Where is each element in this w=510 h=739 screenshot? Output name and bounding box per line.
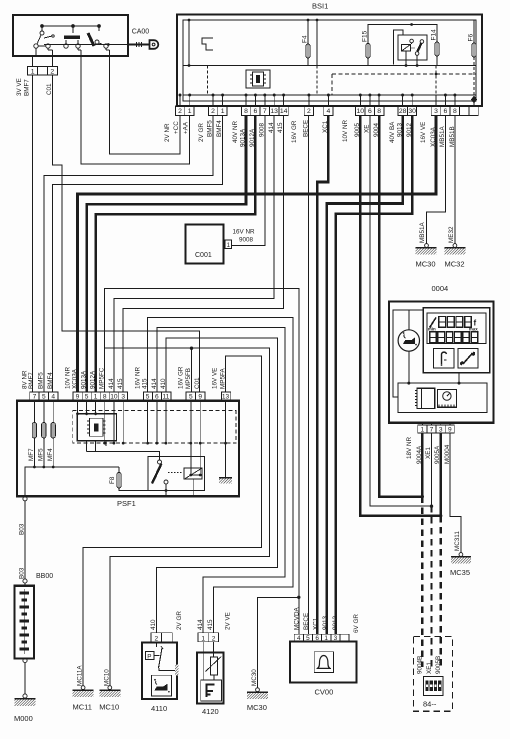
wire 9012A (thick)	[96, 115, 256, 392]
wire +CC	[110, 56, 181, 154]
svg-text:16V GR: 16V GR	[178, 366, 185, 389]
diagnostic connector 84 dashed box	[414, 636, 453, 711]
seven segment digits row1	[439, 317, 477, 328]
svg-text:MC32: MC32	[445, 260, 465, 269]
svg-text:BECE: BECE	[303, 613, 310, 630]
svg-text:4: 4	[51, 394, 55, 401]
oil pressure warning circle icon	[398, 330, 419, 351]
pin feed stubs into dashed box	[78, 400, 226, 443]
internal notch decoration	[202, 38, 213, 50]
ground MC32	[453, 244, 457, 248]
BSI1 pin row boxes	[175, 106, 478, 115]
fuse F8	[118, 467, 120, 473]
wire 415 BSI1-PSF1	[123, 115, 283, 392]
svg-text:9005B: 9005B	[435, 656, 442, 674]
plus diamond junction	[471, 96, 477, 104]
svg-text:B03: B03	[19, 567, 26, 579]
svg-text:9013A: 9013A	[81, 370, 88, 389]
relay feed elbow	[394, 30, 404, 65]
svg-text:BB00: BB00	[36, 573, 53, 580]
wire 9012 (thick)	[336, 115, 412, 634]
dashed wire labels	[417, 656, 443, 674]
svg-text:2V NR: 2V NR	[164, 123, 171, 142]
svg-text:5: 5	[189, 394, 193, 401]
needle gauge icon	[430, 318, 436, 327]
svg-text:2: 2	[50, 68, 54, 75]
svg-text:1: 1	[420, 427, 424, 434]
labels 3V VE / BMF7 / C01	[16, 78, 53, 96]
svg-text:5: 5	[146, 394, 150, 401]
svg-text:1: 1	[221, 108, 225, 115]
wire C01	[52, 75, 199, 392]
svg-text:13: 13	[222, 394, 230, 401]
svg-text:18V NR: 18V NR	[406, 436, 413, 459]
svg-text:84--: 84--	[423, 700, 437, 709]
PSF1 pin labels rotated	[22, 366, 227, 389]
fuse F14	[435, 42, 439, 56]
svg-text:4: 4	[327, 108, 331, 115]
svg-text:5: 5	[85, 394, 89, 401]
svg-text:+CC: +CC	[173, 121, 180, 134]
wire MC30 branch	[258, 597, 299, 688]
PSF1 internal dashed compartment	[73, 411, 236, 444]
BSI1 internal bus	[183, 94, 476, 96]
dashed 9005B	[440, 516, 442, 667]
display unit outer box	[423, 308, 489, 373]
svg-text:XC1: XC1	[313, 617, 320, 630]
svg-text:MC30: MC30	[251, 669, 258, 686]
wire MP5FA to MC11	[83, 356, 262, 685]
svg-text:2: 2	[154, 635, 158, 642]
wire 415 PSF1 to 4120	[148, 317, 293, 632]
wire XC1 (thick)	[317, 115, 328, 634]
C001 pin 1	[225, 240, 232, 249]
svg-text:6: 6	[254, 108, 258, 115]
BSI1 control unit box	[177, 15, 482, 107]
fuse F4	[307, 20, 309, 45]
internal dashed column B	[316, 20, 318, 66]
svg-text:2: 2	[178, 108, 182, 115]
cluster wire labels	[406, 436, 451, 464]
svg-text:F4: F4	[302, 35, 309, 43]
svg-text:6: 6	[155, 394, 159, 401]
relay K inside BSI1	[398, 35, 427, 67]
wire BMF5	[44, 115, 213, 392]
wire 414 PSF1 to 4120	[157, 328, 285, 633]
svg-text:MCVDA: MCVDA	[294, 606, 301, 630]
svg-text:ME32: ME32	[448, 226, 455, 243]
PSF1 connector component	[77, 414, 116, 441]
svg-text:5: 5	[42, 394, 46, 401]
svg-text:f: f	[474, 319, 477, 328]
svg-text:1: 1	[31, 68, 35, 75]
wire ME32	[454, 115, 456, 243]
svg-text:B03: B03	[19, 523, 26, 535]
key icon	[128, 40, 158, 49]
svg-text:14: 14	[280, 108, 288, 115]
fuse MF7	[33, 400, 35, 423]
svg-text:MC311: MC311	[454, 531, 461, 551]
svg-text:MC11: MC11	[73, 703, 92, 712]
svg-text:11: 11	[162, 394, 169, 401]
fuse F15	[366, 44, 370, 59]
svg-text:MC30: MC30	[247, 703, 267, 712]
svg-text:410: 410	[150, 619, 157, 630]
connector C001 box	[185, 224, 223, 263]
instrument cluster 0004 box	[389, 302, 494, 423]
BSI1 internal divider	[183, 65, 476, 67]
svg-text:F14: F14	[431, 29, 438, 41]
cluster lower electronics box	[398, 383, 487, 412]
icon box wrench	[458, 349, 478, 368]
svg-text:7: 7	[263, 108, 267, 115]
wire BMF7	[32, 75, 34, 392]
svg-text:MC30: MC30	[416, 260, 436, 269]
svg-text:415: 415	[117, 378, 124, 389]
PSF1 fuse box	[17, 401, 239, 497]
LCD box	[427, 313, 486, 344]
svg-text:4120: 4120	[202, 707, 219, 716]
wire BECE	[308, 115, 310, 634]
icon box key	[434, 349, 454, 368]
svg-text:BMF7: BMF7	[24, 79, 31, 96]
svg-text:3: 3	[434, 108, 438, 115]
BSI1 pin numbers	[178, 108, 457, 115]
svg-text:28: 28	[399, 108, 407, 115]
svg-text:C01: C01	[194, 377, 201, 389]
wire 414 BSI1-PSF1	[114, 115, 274, 392]
wire 9005 (thick)	[360, 115, 440, 515]
svg-text:MF5: MF5	[37, 448, 44, 461]
wire XE	[370, 115, 432, 506]
svg-text:40V NR: 40V NR	[232, 120, 239, 143]
wire M0004 to MC35	[450, 433, 461, 552]
svg-text:16V VE: 16V VE	[420, 122, 427, 143]
svg-text:10: 10	[110, 394, 118, 401]
svg-text:F15: F15	[362, 30, 369, 42]
ground M000	[23, 694, 27, 698]
svg-text:+AA: +AA	[183, 121, 190, 134]
svg-text:BMF5: BMF5	[207, 120, 214, 137]
svg-text:MC11A: MC11A	[77, 665, 84, 686]
svg-text:16V NR: 16V NR	[233, 229, 256, 236]
svg-text:9013: 9013	[322, 615, 329, 630]
BSI1 pin stubs and junction dots	[180, 95, 455, 106]
svg-text:BMF4: BMF4	[216, 120, 223, 137]
svg-text:9005A: 9005A	[434, 445, 441, 464]
switch internal bus	[41, 25, 101, 33]
fuse F6	[473, 20, 475, 43]
key link line	[44, 44, 128, 46]
svg-text:13: 13	[270, 108, 278, 115]
wire 9008	[232, 115, 265, 245]
wire MB51A	[427, 115, 446, 243]
ignition contact set 1	[34, 31, 54, 56]
svg-text:7: 7	[33, 394, 37, 401]
internal bus to battery	[25, 467, 119, 497]
svg-text:1: 1	[188, 108, 192, 115]
svg-text:2V VE: 2V VE	[225, 612, 232, 630]
svg-text:XE1: XE1	[426, 662, 433, 674]
dashed XE1	[430, 506, 432, 667]
svg-text:MP5FB: MP5FB	[185, 368, 192, 389]
seven segment digits row2	[430, 332, 478, 343]
cluster internal wires	[408, 310, 410, 330]
ignition switch CA00 box	[13, 15, 128, 56]
wire MP5FC to MCVDA and MC30	[105, 289, 299, 635]
svg-text:9: 9	[198, 394, 202, 401]
wire XC03A (thick)	[78, 115, 437, 392]
pin stubs	[32, 56, 34, 67]
connector symbol inside BSI1	[246, 70, 270, 88]
svg-text:9012A: 9012A	[90, 370, 97, 389]
svg-text:2V GR: 2V GR	[176, 611, 183, 630]
svg-text:4110: 4110	[151, 704, 167, 713]
svg-text:16V GR: 16V GR	[291, 120, 298, 143]
svg-text:414: 414	[108, 378, 115, 389]
internal ground in PSF1	[225, 443, 227, 477]
svg-text:F8: F8	[109, 476, 116, 484]
svg-text:MC10: MC10	[99, 703, 119, 712]
svg-text:M0004: M0004	[444, 444, 451, 464]
PSF1 pin numbers	[33, 394, 230, 401]
svg-text:7: 7	[430, 427, 434, 434]
cluster pin row	[418, 425, 455, 433]
junction dots cluster splices	[421, 495, 424, 498]
svg-text:BMF5: BMF5	[37, 372, 44, 389]
svg-text:MC10: MC10	[103, 669, 110, 686]
wire MP5FB to MC10	[105, 348, 270, 685]
ignition contact set 3	[88, 33, 110, 56]
svg-text:16V NR: 16V NR	[135, 366, 142, 389]
svg-text:2: 2	[211, 108, 215, 115]
relay lower wires	[165, 489, 194, 496]
svg-text:PSF1: PSF1	[117, 499, 136, 508]
svg-text:XE1: XE1	[425, 447, 432, 459]
wire BMF4	[52, 115, 222, 392]
svg-text:9008: 9008	[239, 237, 254, 244]
cluster pin stubs	[421, 423, 423, 425]
svg-text:BSI1: BSI1	[312, 2, 328, 11]
svg-text:0004: 0004	[432, 284, 449, 293]
svg-text:2: 2	[212, 635, 216, 642]
svg-text:3V VE: 3V VE	[16, 78, 23, 96]
svg-text:BMF7: BMF7	[28, 372, 35, 389]
svg-text:1: 1	[227, 242, 231, 249]
svg-text:1: 1	[201, 635, 205, 642]
svg-text:3: 3	[121, 394, 125, 401]
internal dashed column A	[207, 66, 209, 96]
svg-text:6: 6	[444, 108, 448, 115]
svg-text:2V GR: 2V GR	[198, 123, 205, 142]
BSI1 pin wire labels (rotated)	[164, 119, 456, 147]
svg-text:XC03A: XC03A	[72, 368, 79, 389]
svg-text:8: 8	[377, 108, 381, 115]
svg-text:415: 415	[207, 619, 214, 630]
svg-text:CV00: CV00	[315, 688, 334, 697]
svg-text:MF7: MF7	[28, 448, 35, 461]
MP5FB/C01 drop wires	[189, 443, 202, 476]
wire 9013A (thick)	[87, 115, 246, 392]
svg-text:M000: M000	[14, 714, 33, 723]
ignition contact set 2	[64, 36, 81, 57]
svg-text:6V GR: 6V GR	[353, 614, 360, 633]
svg-text:1: 1	[94, 394, 98, 401]
svg-text:BMF4: BMF4	[47, 372, 54, 389]
connector C01 pin boxes	[28, 67, 58, 76]
svg-text:8: 8	[453, 108, 457, 115]
svg-text:CA00: CA00	[132, 29, 150, 36]
svg-text:MC35: MC35	[450, 568, 470, 577]
wire 410 PSF1 to 4110	[156, 338, 277, 633]
svg-text:3: 3	[439, 427, 443, 434]
battery lower connection	[23, 658, 27, 662]
svg-text:9: 9	[448, 427, 452, 434]
dashed 9004B	[421, 497, 423, 667]
svg-text:10V NR: 10V NR	[65, 366, 72, 389]
gauge meter symbol	[437, 390, 456, 408]
svg-text:min: min	[428, 326, 436, 331]
svg-text:6: 6	[368, 108, 372, 115]
svg-text:9: 9	[76, 394, 80, 401]
wire B03	[24, 501, 26, 579]
ground MC30 (upper)	[425, 244, 429, 248]
IC symbol	[417, 388, 435, 408]
wire +AA	[81, 56, 190, 164]
fuse MF4	[52, 400, 54, 423]
svg-text:MB51A: MB51A	[419, 222, 426, 243]
relay in PSF1	[148, 457, 204, 491]
svg-text:9012: 9012	[332, 615, 339, 630]
wire 9004 (thick)	[379, 115, 422, 496]
svg-text:C001: C001	[195, 252, 212, 259]
PSF1 pin row boxes	[30, 392, 231, 400]
svg-text:2: 2	[307, 108, 311, 115]
svg-text:9004B: 9004B	[417, 656, 424, 674]
svg-text:8: 8	[244, 108, 248, 115]
BSI1 inner outline	[183, 20, 476, 101]
svg-text:414: 414	[197, 619, 204, 630]
wire 9013 (thick)	[327, 115, 403, 634]
svg-text:16V VE: 16V VE	[212, 368, 219, 389]
fuse MF5	[43, 400, 45, 423]
svg-text:10V NR: 10V NR	[342, 119, 349, 142]
svg-text:40V BA: 40V BA	[389, 121, 396, 143]
internal wire left	[188, 20, 190, 66]
svg-text:8: 8	[103, 394, 107, 401]
B03 circle at PSF1 exit	[23, 497, 27, 501]
svg-text:MF4: MF4	[47, 448, 54, 461]
svg-text:30: 30	[408, 108, 416, 115]
svg-text:10: 10	[357, 108, 365, 115]
internal feed wire top	[368, 25, 437, 45]
svg-text:F6: F6	[468, 34, 475, 42]
connector icon	[423, 677, 443, 696]
svg-text:P: P	[147, 653, 151, 660]
connector box lower stubs	[87, 441, 160, 457]
buzzer CV00	[294, 606, 361, 633]
dashed relay compartment	[332, 73, 476, 75]
svg-text:9004A: 9004A	[416, 445, 423, 464]
battery BB00	[24, 583, 26, 586]
